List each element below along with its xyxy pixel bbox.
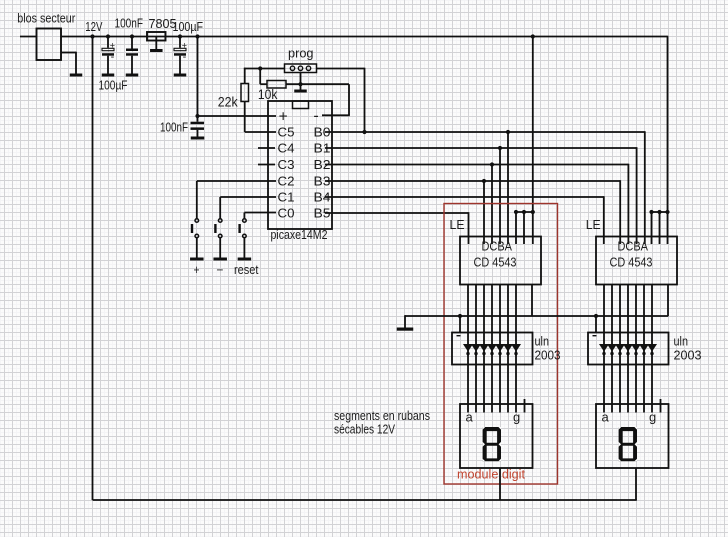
wire B input to U3: [499, 148, 501, 244]
node B0 to prog junction: [362, 130, 366, 134]
driver channel triangle x=468: [463, 344, 473, 352]
wire U3 control tie bar: [516, 211, 533, 213]
capacitor C4 100nF top plate: [191, 122, 205, 125]
wire 7805 ground pin: [155, 37, 157, 50]
svg-text:prog: prog: [288, 46, 314, 61]
svg-text:LE: LE: [450, 217, 465, 232]
driver channel output dot x=468: [466, 352, 469, 355]
node U3 control tie 3: [531, 210, 535, 214]
svg-text:g: g: [513, 410, 520, 425]
wire U3 ground pin: [531, 285, 533, 317]
regulator U2 7805 body: [147, 32, 166, 41]
capacitor C1 100µF bottom plate: [102, 53, 114, 56]
driver channel triangle x=484: [479, 344, 489, 352]
wire D input to U5: [619, 180, 621, 244]
driver channel output dot x=652: [650, 352, 653, 355]
node U5 control tie 1: [649, 210, 653, 214]
wire uln1 ground lead: [459, 316, 461, 333]
display DISP1 body: [460, 404, 533, 468]
wire ground line drop: [404, 315, 406, 327]
wire C4 bottom lead: [197, 130, 199, 137]
ground blos secteur: [70, 74, 83, 77]
svg-text:-: -: [183, 51, 187, 63]
node uln1 ground tap: [458, 314, 462, 318]
wire S2 minus to ground: [219, 238, 221, 258]
svg-text:reset: reset: [234, 263, 259, 277]
svg-text:LE: LE: [586, 217, 601, 232]
svg-text:-: -: [313, 107, 318, 124]
svg-text:22k: 22k: [218, 94, 239, 110]
ground C4: [191, 137, 205, 140]
button S1 plus actuator: [191, 224, 193, 233]
wire LE2 drop (B4 to U5): [603, 196, 605, 244]
driver channel output dot x=492: [490, 352, 493, 355]
wire segment line x=612: [611, 285, 613, 413]
wire B4 horizontal: [325, 196, 604, 198]
svg-text:-: -: [111, 51, 115, 63]
wire button S1 drop: [196, 181, 198, 219]
wire segment line x=492: [491, 285, 493, 413]
driver channel triangle x=652: [647, 344, 657, 352]
wire prog ground drop: [300, 73, 302, 90]
svg-text:picaxe14M2: picaxe14M2: [271, 228, 328, 242]
wire 22k to pin C5: [245, 131, 276, 133]
svg-text:CD 4543: CD 4543: [474, 256, 517, 270]
display DISP2 digit 8: [619, 427, 637, 461]
wire U3 control pin drop 2: [523, 212, 525, 244]
ground C3: [174, 74, 187, 77]
wire rail to U3 control pins: [532, 37, 534, 245]
svg-text:C1: C1: [278, 190, 295, 204]
wire U5 control pin drop 1: [651, 212, 653, 244]
wire +5V drop: [197, 37, 199, 117]
driver channel output dot x=508: [506, 352, 509, 355]
driver channel output dot x=612: [610, 352, 613, 355]
wire pin C4 stub: [258, 147, 275, 149]
driver channel output dot x=636: [634, 352, 637, 355]
wire segment line x=500: [499, 285, 501, 413]
wire B0 horizontal: [325, 131, 645, 133]
wire C2 bottom lead: [131, 56, 133, 74]
capacitor C3 100µF top plate: [174, 48, 186, 50]
wire D input to U3: [483, 181, 485, 244]
wire blos secteur return drop: [75, 52, 77, 74]
wire prog to B0 vertical: [364, 68, 366, 132]
wire U3 control pin drop 1: [515, 212, 517, 244]
connector J1 prog body: [285, 64, 317, 73]
svg-text:100nF: 100nF: [115, 16, 144, 30]
wire serial-in drop: [259, 69, 261, 85]
wire 22k-to-prog horizontal: [244, 68, 285, 70]
ground prog: [294, 90, 307, 93]
node cap C2 tap: [130, 34, 134, 38]
ground S3 reset: [238, 258, 252, 261]
driver channel output dot x=628: [626, 352, 629, 355]
wire pin C3 stub: [258, 164, 275, 166]
display DISP2 body: [596, 404, 669, 468]
svg-text:100nF: 100nF: [160, 121, 188, 135]
driver D minus pin mark: [593, 335, 597, 337]
driver channel triangle x=508: [503, 344, 513, 352]
driver channel triangle x=604: [599, 344, 609, 352]
driver channel output dot x=604: [602, 352, 605, 355]
button S3 reset actuator: [238, 224, 240, 233]
capacitor C3 100µF bottom plate: [174, 53, 186, 56]
wire display2 common to bottom rail: [635, 468, 637, 500]
driver D uln2003 body: [588, 333, 669, 365]
wire C1 top lead: [107, 37, 109, 48]
wire B5 horizontal: [325, 212, 469, 214]
wire C input to U3: [491, 165, 493, 245]
wire B1 horizontal: [325, 147, 637, 149]
driver channel triangle x=500: [495, 344, 505, 352]
node rail tap for U3 control pins: [531, 34, 535, 38]
ground 7805: [150, 49, 163, 52]
svg-text:C2: C2: [278, 174, 295, 188]
node 12V junction: [90, 34, 94, 38]
wire segment line x=620: [619, 285, 621, 413]
wire S3 reset to ground: [243, 238, 245, 258]
node B-line tap B1: [498, 146, 502, 150]
svg-text:DCBA: DCBA: [482, 240, 513, 254]
wire U5 control pin drop 2: [659, 212, 661, 244]
capacitor C2 100nF top plate: [126, 49, 138, 52]
wire button S3 drop: [243, 213, 245, 219]
svg-text:a: a: [466, 410, 474, 425]
svg-text:uln: uln: [535, 334, 550, 348]
button S2 minus actuator: [214, 224, 216, 233]
node prog ground junction: [298, 82, 302, 86]
node +5V junction at C4: [195, 114, 199, 118]
driver channel triangle x=516: [511, 344, 521, 352]
button S2 minus top contact: [218, 219, 222, 223]
wire U5 ground pin: [667, 285, 669, 317]
wire segment line x=644: [643, 285, 645, 413]
svg-text:12V: 12V: [85, 20, 103, 34]
wire serial-out to picaxe - pin: [322, 114, 350, 116]
wire segment line x=652: [651, 285, 653, 413]
wire S1 plus to ground: [196, 238, 198, 258]
svg-text:C4: C4: [278, 141, 295, 155]
node U5 control tie 3: [665, 210, 669, 214]
decoder U5 CD4543 body: [596, 237, 677, 285]
node U3 control tie 2: [522, 210, 526, 214]
power block "blos secteur": [37, 29, 62, 61]
node cap C1 tap: [106, 34, 110, 38]
wire B3 horizontal: [325, 180, 620, 182]
ground S2 minus: [213, 258, 227, 261]
display DISP1 common stub: [524, 399, 526, 413]
driver channel triangle x=492: [487, 344, 497, 352]
svg-text:CD 4543: CD 4543: [610, 256, 653, 270]
wire U5 control tie bar: [652, 211, 668, 213]
svg-text:−: −: [217, 263, 224, 277]
wire C1 bottom lead: [107, 56, 109, 74]
wire LE1 drop (B5 to U3): [468, 212, 470, 244]
node B-line tap A1: [506, 130, 510, 134]
capacitor C4 100nF bottom plate: [191, 127, 205, 129]
node B-line tap D1: [482, 179, 486, 183]
wire mains input: [20, 36, 37, 38]
svg-text:g: g: [649, 410, 656, 425]
connector J1 pin 2: [298, 66, 302, 70]
wire pin C2 to button S1: [197, 180, 276, 182]
MCU U1 notch: [293, 101, 309, 109]
wire C3 bottom lead: [179, 56, 181, 74]
button S1 plus bottom contact: [195, 234, 199, 238]
wire A input to U3: [507, 132, 509, 244]
wire prog to B0 horizontal: [317, 68, 365, 70]
wire bottom return rail: [93, 499, 637, 501]
wire display1 common to bottom rail: [499, 468, 501, 500]
driver channel output dot x=516: [514, 352, 517, 355]
wire uln2 ground lead: [595, 316, 597, 333]
driver D minus pin mark: [457, 335, 461, 337]
ground S1 plus: [190, 258, 204, 261]
driver channel output dot x=500: [498, 352, 501, 355]
wire segment line x=604: [603, 285, 605, 413]
svg-text:segments en rubans: segments en rubans: [334, 409, 430, 423]
wire 22k bottom lead: [244, 102, 246, 133]
wire 22k top lead: [244, 68, 246, 84]
display DISP1 digit 8: [483, 427, 501, 461]
svg-text:+: +: [279, 108, 288, 125]
svg-text:10k: 10k: [258, 86, 278, 102]
ground segment-common: [397, 328, 414, 331]
driver channel triangle x=636: [631, 344, 641, 352]
button S3 reset bottom contact: [243, 234, 247, 238]
driver channel triangle x=628: [623, 344, 633, 352]
connector J1 pin 3: [306, 66, 310, 70]
svg-text:2003: 2003: [674, 349, 702, 363]
resistor R2 10k: [267, 81, 286, 89]
node U5 control tie 2: [657, 210, 661, 214]
wire A input to U5: [644, 131, 646, 244]
wire C2 top lead: [131, 37, 133, 49]
capacitor C1 100µF top plate: [102, 48, 114, 50]
node +5V rail tap: [195, 34, 199, 38]
driver channel triangle x=644: [639, 344, 649, 352]
svg-text:DCBA: DCBA: [618, 240, 649, 254]
node U3 control tie 1: [514, 210, 518, 214]
driver channel output dot x=484: [482, 352, 485, 355]
wire segment line x=628: [627, 285, 629, 413]
button S2 minus bottom contact: [218, 234, 222, 238]
svg-text:2003: 2003: [535, 349, 561, 363]
driver channel output dot x=476: [474, 352, 477, 355]
svg-text:C5: C5: [278, 125, 295, 139]
wire segment line x=476: [475, 285, 477, 413]
svg-text:100µF: 100µF: [173, 20, 204, 34]
wire segment line x=516: [515, 285, 517, 413]
button S3 reset top contact: [243, 219, 247, 223]
wire pin C0 to button S3: [244, 212, 276, 214]
MCU U1 picaxe14M2 body: [268, 101, 332, 229]
wire C input to U5: [627, 164, 629, 244]
button S1 plus top contact: [195, 219, 199, 223]
svg-text:C0: C0: [278, 206, 295, 220]
node serial-in junction: [258, 66, 262, 70]
capacitor C2 100nF bottom plate: [126, 53, 138, 56]
wire blos secteur return: [61, 52, 76, 54]
wire 12V vertical bus: [92, 37, 94, 501]
display DISP2 common stub: [660, 399, 662, 413]
driver channel triangle x=476: [471, 344, 481, 352]
resistor R1 22k: [241, 84, 249, 102]
wire +5V to picaxe + pin: [198, 115, 277, 117]
driver channel output dot x=644: [642, 352, 645, 355]
module outline box: [444, 204, 558, 485]
wire 10k right lead: [286, 83, 349, 85]
wire segment line x=468: [467, 285, 469, 413]
wire B input to U5: [636, 147, 638, 244]
wire serial-out vertical: [348, 84, 350, 115]
svg-text:sécables 12V: sécables 12V: [334, 422, 396, 436]
node B-line tap C1: [490, 162, 494, 166]
wire segment line x=636: [635, 285, 637, 413]
wire pin C1 to button S2: [220, 196, 276, 198]
svg-text:uln: uln: [674, 334, 689, 348]
wire C3 top lead: [179, 37, 181, 48]
decoder U3 CD4543 body: [460, 237, 541, 285]
svg-text:100µF: 100µF: [99, 79, 128, 93]
svg-text:+: +: [194, 263, 200, 277]
wire to 10k left lead: [260, 83, 267, 85]
wire +12V rail: [61, 36, 668, 38]
driver channel output dot x=620: [618, 352, 621, 355]
svg-text:C3: C3: [278, 158, 295, 172]
driver D uln2003 body: [452, 333, 533, 365]
wire segment line x=508: [507, 285, 509, 413]
wire segment line x=484: [483, 285, 485, 413]
wire C4 top lead: [197, 116, 199, 122]
wire rail to U5 control pins: [667, 36, 669, 244]
connector J1 pin 1: [290, 66, 294, 70]
svg-text:a: a: [602, 410, 610, 425]
wire button S2 drop: [219, 197, 221, 219]
svg-text:blos secteur: blos secteur: [17, 12, 75, 26]
driver channel triangle x=620: [615, 344, 625, 352]
driver channel triangle x=612: [607, 344, 617, 352]
wire segment-common ground line: [405, 315, 668, 317]
ground C1: [102, 74, 115, 77]
wire B2 horizontal: [325, 164, 628, 166]
node cap C3 tap: [178, 34, 182, 38]
ground C2: [126, 74, 139, 77]
node uln2 ground tap: [594, 314, 598, 318]
